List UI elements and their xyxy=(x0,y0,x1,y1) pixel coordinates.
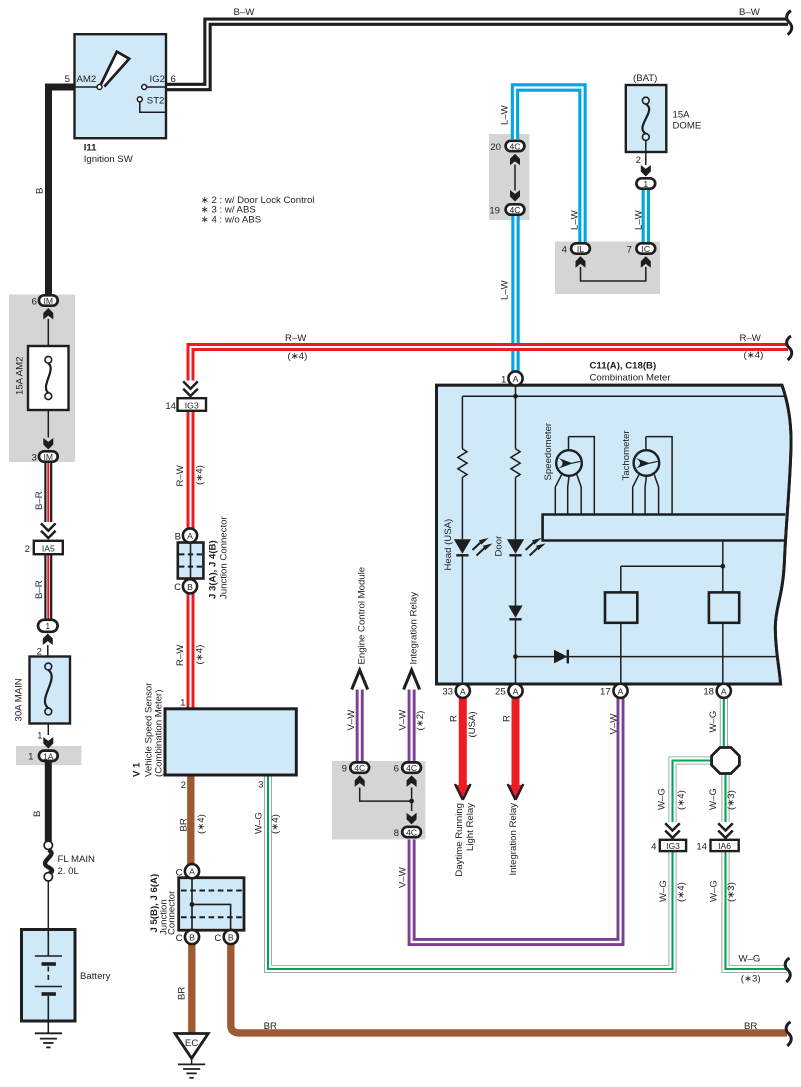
arrow into 3 IM xyxy=(43,438,53,450)
svg-text:B: B xyxy=(187,582,193,592)
svg-text:1: 1 xyxy=(45,621,50,631)
svg-text:33: 33 xyxy=(442,687,453,698)
svg-text:1: 1 xyxy=(643,179,648,189)
svg-text:C11(A), C18(B): C11(A), C18(B) xyxy=(590,361,657,372)
svg-text:C: C xyxy=(176,868,183,879)
svg-text:5: 5 xyxy=(65,74,70,85)
svg-text:6: 6 xyxy=(31,296,36,307)
arrow into 8 xyxy=(407,813,417,825)
connector 2 IA5 xyxy=(25,541,63,555)
wire battery feed thin xyxy=(47,880,49,930)
svg-text:R: R xyxy=(449,715,460,722)
wire fuse link xyxy=(47,319,49,438)
wire R arrow (pin 25 integration relay) xyxy=(508,698,524,800)
svg-text:Integration Relay: Integration Relay xyxy=(508,803,519,876)
svg-text:4C: 4C xyxy=(510,205,521,215)
tachometer gauge xyxy=(633,437,672,515)
svg-text:4: 4 xyxy=(562,244,568,255)
svg-text:6: 6 xyxy=(171,74,176,85)
svg-text:14: 14 xyxy=(696,842,707,853)
svg-text:B–W: B–W xyxy=(234,7,256,18)
connector 6 4C xyxy=(394,762,421,774)
wire L-W (4C 20 up, over to IL) xyxy=(515,88,583,243)
wire R-W (junction B to V1 pin 1) xyxy=(187,593,195,710)
wire V-W (4C 6 up to integration relay arrow) xyxy=(408,690,416,763)
wire R arrow (pin 33 daytime running light relay) xyxy=(455,698,471,800)
wire B-R (IM3 to IA5) xyxy=(44,461,52,522)
shade 4C top (pins 20/19) xyxy=(489,134,530,220)
svg-text:7: 7 xyxy=(627,244,632,255)
svg-text:4C: 4C xyxy=(510,142,521,152)
svg-text:L–W: L–W xyxy=(500,279,511,300)
svg-text:Integration Relay: Integration Relay xyxy=(409,592,420,665)
wire L-W (4C 19 down to meter pin 1) xyxy=(511,216,519,372)
meter border redraw (over internals) xyxy=(437,385,792,684)
svg-text:IG3: IG3 xyxy=(666,841,680,851)
wire V-W (4C 8 down, over to meter pin 17) xyxy=(412,698,621,942)
LED door xyxy=(507,539,543,555)
svg-text:V–W: V–W xyxy=(346,709,357,731)
combination meter box C11(A) C18(B) xyxy=(437,385,792,684)
svg-text:2: 2 xyxy=(25,544,30,555)
svg-text:A: A xyxy=(721,686,727,696)
wire door column xyxy=(515,386,517,684)
square box right xyxy=(709,592,739,622)
pin 1 A xyxy=(501,371,523,385)
pin 6 IG2 contact xyxy=(142,85,147,90)
wire R-W (main horizontal + drop to IG3) xyxy=(191,347,789,381)
svg-text:(∗4): (∗4) xyxy=(744,350,764,361)
svg-text:IC: IC xyxy=(642,244,651,254)
svg-text:3: 3 xyxy=(31,452,36,463)
chevron into IA6 xyxy=(718,823,733,838)
pin 17 A xyxy=(600,684,628,698)
svg-text:V–W: V–W xyxy=(398,866,409,888)
svg-text:(∗4): (∗4) xyxy=(195,645,206,665)
wire B-R (IA5 to connector 1) xyxy=(44,554,52,619)
chevron into IG3 (4) xyxy=(665,823,680,838)
connector 4 IL xyxy=(562,243,590,255)
svg-text:B–R: B–R xyxy=(34,491,45,510)
svg-text:(∗3): (∗3) xyxy=(726,790,737,810)
svg-text:J 3(A), J 4(B): J 3(A), J 4(B) xyxy=(208,540,219,599)
wire V-W (4C 9 up to ECM arrow) xyxy=(356,690,364,763)
wire W-G (meter pin 18 to octagon) xyxy=(720,698,728,748)
wire internal top rail xyxy=(462,395,784,397)
svg-text:IG2: IG2 xyxy=(150,74,165,85)
svg-text:1: 1 xyxy=(501,375,506,386)
shade IL/IC block xyxy=(555,242,660,295)
svg-text:BR: BR xyxy=(177,987,188,1000)
svg-text:Head (USA): Head (USA) xyxy=(443,519,454,571)
arrow into 1A xyxy=(43,737,53,749)
ignition switch I11 box xyxy=(75,34,167,138)
svg-text:IM: IM xyxy=(44,452,54,462)
svg-text:2: 2 xyxy=(636,155,641,166)
junction connector J3/J4 xyxy=(174,528,203,593)
svg-text:L–W: L–W xyxy=(634,209,645,230)
svg-text:B: B xyxy=(35,188,46,194)
diode door column xyxy=(508,606,522,620)
svg-text:1A: 1A xyxy=(43,751,54,761)
arrow into 19 xyxy=(510,190,520,202)
svg-text:2. 0L: 2. 0L xyxy=(58,866,80,877)
node door/diode row xyxy=(513,654,518,659)
svg-text:IA6: IA6 xyxy=(718,841,731,851)
connector 9 4C xyxy=(342,762,369,774)
svg-text:20: 20 xyxy=(490,142,501,153)
svg-text:BR: BR xyxy=(744,1021,757,1032)
svg-text:W–G: W–G xyxy=(254,812,265,834)
speedometer gauge xyxy=(555,437,594,515)
connector 8 4C xyxy=(394,827,421,839)
svg-text:(Combination Meter): (Combination Meter) xyxy=(154,690,165,777)
svg-text:3: 3 xyxy=(258,780,263,791)
node top rail / pin1 xyxy=(513,394,518,399)
svg-text:1: 1 xyxy=(37,731,42,742)
wire diode row xyxy=(516,656,778,658)
svg-text:(∗2): (∗2) xyxy=(415,711,426,731)
svg-text:B: B xyxy=(32,811,43,817)
wire B (ignition AM2 down) xyxy=(49,87,75,295)
svg-text:W–G: W–G xyxy=(658,880,669,902)
svg-text:ST2: ST2 xyxy=(147,96,165,107)
arrow into dome 1 xyxy=(641,165,651,177)
ground EC xyxy=(175,1034,208,1078)
svg-text:R–W: R–W xyxy=(740,333,762,344)
svg-text:B: B xyxy=(189,933,195,943)
wire 4C internal xyxy=(360,788,412,812)
chevron into IG3 xyxy=(183,381,198,396)
connector 14 IA6 xyxy=(696,840,738,853)
wire IL-IC link xyxy=(581,267,646,281)
pin 33 A xyxy=(442,684,470,698)
svg-text:30A MAIN: 30A MAIN xyxy=(14,678,25,721)
svg-text:DOME: DOME xyxy=(673,121,702,132)
break BR right edge xyxy=(786,1022,791,1046)
svg-text:W–G: W–G xyxy=(708,788,719,810)
LED head xyxy=(454,539,490,555)
svg-text:C: C xyxy=(174,582,181,593)
connector 3 IM xyxy=(31,451,57,463)
svg-text:Ignition SW: Ignition SW xyxy=(84,154,134,165)
svg-text:(BAT): (BAT) xyxy=(633,73,657,84)
svg-text:IM: IM xyxy=(44,296,54,306)
wire B-W (ignition IG2 to right edge) xyxy=(166,22,788,87)
svg-text:(∗3): (∗3) xyxy=(726,882,737,902)
svg-text:A: A xyxy=(513,374,519,384)
svg-text:(∗4): (∗4) xyxy=(195,465,206,485)
svg-text:FL MAIN: FL MAIN xyxy=(58,854,96,865)
svg-text:(∗4): (∗4) xyxy=(676,882,687,902)
svg-text:Combination Meter: Combination Meter xyxy=(590,373,672,384)
svg-text:I11: I11 xyxy=(84,143,97,154)
connector 1 dome xyxy=(636,178,655,189)
svg-text:Speedometer: Speedometer xyxy=(543,422,554,480)
connector 14 IG3 xyxy=(165,398,206,412)
svg-text:1: 1 xyxy=(180,698,185,709)
svg-text:B–W: B–W xyxy=(739,7,761,18)
svg-text:R–W: R–W xyxy=(175,464,186,486)
arrows into 9 and 6 xyxy=(355,775,365,787)
arrow into 6 IM xyxy=(43,308,53,320)
switch lever xyxy=(101,52,129,87)
wire BR (V1 pin2 to J5 A) xyxy=(187,775,194,865)
arrow to integration relay xyxy=(404,670,420,690)
svg-text:IA5: IA5 xyxy=(42,543,55,553)
svg-text:Tachometer: Tachometer xyxy=(621,430,632,481)
svg-text:2: 2 xyxy=(181,780,186,791)
pin ST2 contact xyxy=(137,97,142,102)
battery xyxy=(22,930,76,1034)
wire R-W (IG3 to junction A) xyxy=(187,411,195,530)
svg-text:15A: 15A xyxy=(673,110,691,121)
break R-W right edge xyxy=(787,336,792,360)
svg-text:W–G: W–G xyxy=(708,711,719,733)
svg-text:Light Relay: Light Relay xyxy=(465,803,476,851)
wire B (1A to FL MAIN) xyxy=(45,762,52,842)
svg-text:V–W: V–W xyxy=(398,709,409,731)
junction connector J5/J6 xyxy=(176,864,244,944)
svg-text:25: 25 xyxy=(495,687,506,698)
wire W-G (octagon down through IA6 to right edge) xyxy=(726,774,788,970)
svg-text:V 1: V 1 xyxy=(132,762,143,777)
svg-text:Junction Connector: Junction Connector xyxy=(219,516,230,599)
svg-text:(∗3): (∗3) xyxy=(741,974,761,985)
svg-text:BR: BR xyxy=(179,818,190,831)
fuse 30A MAIN xyxy=(30,657,71,724)
svg-text:IL: IL xyxy=(577,244,584,254)
resistor door xyxy=(511,449,520,478)
svg-text:W–G: W–G xyxy=(709,880,720,902)
svg-text:1: 1 xyxy=(28,752,33,763)
svg-text:Door: Door xyxy=(494,535,505,557)
svg-text:4C: 4C xyxy=(354,763,365,773)
pin 5 AM2 contact xyxy=(97,85,102,90)
meter internal: top rail xyxy=(462,386,784,684)
svg-text:Engine Control Module: Engine Control Module xyxy=(357,567,368,665)
svg-text:V–W: V–W xyxy=(609,713,620,735)
relay block shade AM2 fuse xyxy=(9,295,75,463)
wire L-W (dome 1 to IC) xyxy=(642,189,650,242)
svg-text:L–W: L–W xyxy=(500,104,511,125)
svg-text:A: A xyxy=(513,686,519,696)
arrow to ECM xyxy=(352,670,368,690)
node squares row xyxy=(720,564,725,569)
square box left xyxy=(605,592,637,622)
svg-text:4: 4 xyxy=(651,842,657,853)
bus bar xyxy=(543,515,786,541)
svg-text:4C: 4C xyxy=(406,828,417,838)
svg-text:4C: 4C xyxy=(406,763,417,773)
svg-text:EC: EC xyxy=(185,1038,198,1049)
svg-text:A: A xyxy=(189,867,195,877)
svg-text:R: R xyxy=(502,715,513,722)
svg-text:(USA): (USA) xyxy=(467,711,478,737)
svg-text:∗ 4 : w/o ABS: ∗ 4 : w/o ABS xyxy=(201,214,261,225)
octagon connector xyxy=(712,748,740,774)
connector 20 4C xyxy=(490,141,524,153)
svg-text:19: 19 xyxy=(489,205,500,216)
svg-text:A: A xyxy=(460,686,466,696)
svg-text:R–W: R–W xyxy=(285,333,307,344)
svg-text:(∗4): (∗4) xyxy=(288,351,308,362)
svg-text:6: 6 xyxy=(394,763,399,774)
V1 box xyxy=(165,709,296,775)
fusible link FL MAIN xyxy=(44,841,52,881)
svg-text:B–R: B–R xyxy=(34,580,45,599)
shade 4C middle (pins 9/6/8) xyxy=(332,761,426,840)
wire W-G (V1 pin3 loop through IG3) xyxy=(268,775,673,969)
ground battery xyxy=(35,1033,62,1047)
arrow into connector 1 xyxy=(43,634,53,646)
fuse 15A AM2 xyxy=(28,346,69,410)
wire W-G (octagon left branch to IG3) xyxy=(673,761,715,823)
pin 18 A xyxy=(703,684,731,698)
connector 19 4C xyxy=(489,204,524,216)
connector 6 IM xyxy=(31,295,57,307)
svg-text:W–G: W–G xyxy=(739,954,761,965)
wire BR (J5 B to EC ground) xyxy=(188,944,195,1034)
svg-text:AM2: AM2 xyxy=(77,74,97,85)
svg-text:18: 18 xyxy=(703,687,714,698)
svg-text:17: 17 xyxy=(600,687,611,698)
svg-text:14: 14 xyxy=(165,401,176,412)
svg-text:Daytime Running: Daytime Running xyxy=(454,803,465,877)
svg-text:IG3: IG3 xyxy=(185,400,199,410)
pin 25 A xyxy=(495,684,523,698)
wire squares columns xyxy=(621,541,723,684)
svg-text:(∗4): (∗4) xyxy=(196,814,207,834)
arrow into 20 xyxy=(510,154,520,166)
svg-text:A: A xyxy=(618,686,624,696)
svg-text:(∗4): (∗4) xyxy=(270,814,281,834)
break W-G right edge xyxy=(785,958,790,982)
svg-text:C: C xyxy=(214,933,221,944)
connector 4 IG3 xyxy=(651,840,686,853)
svg-text:15A AM2: 15A AM2 xyxy=(15,357,26,395)
wire BR (J5 B right to right edge) xyxy=(231,944,787,1033)
diode row (pointing right) xyxy=(554,650,568,664)
svg-text:Battery: Battery xyxy=(80,971,111,982)
svg-text:9: 9 xyxy=(342,763,347,774)
wire head column xyxy=(461,396,463,683)
fuse 15A DOME xyxy=(626,85,667,152)
svg-text:W–G: W–G xyxy=(657,788,668,810)
connector 7 IC xyxy=(627,243,656,255)
connector 1 1A xyxy=(28,751,58,763)
arrows into IL and IC xyxy=(576,256,586,268)
svg-text:8: 8 xyxy=(394,828,399,839)
resistor head xyxy=(458,449,467,478)
svg-text:(∗4): (∗4) xyxy=(676,790,687,810)
svg-text:Connector: Connector xyxy=(167,890,178,935)
svg-text:B: B xyxy=(175,532,181,543)
break B-W right edge xyxy=(787,11,792,35)
connector 1 (to 30A MAIN) xyxy=(38,620,58,632)
svg-text:R–W: R–W xyxy=(175,644,186,666)
chevron into IA5 xyxy=(41,523,56,538)
svg-text:B: B xyxy=(228,933,234,943)
svg-text:BR: BR xyxy=(264,1021,277,1032)
shade strip 1A xyxy=(16,746,82,765)
svg-text:A: A xyxy=(187,531,193,541)
svg-text:L–W: L–W xyxy=(570,209,581,230)
